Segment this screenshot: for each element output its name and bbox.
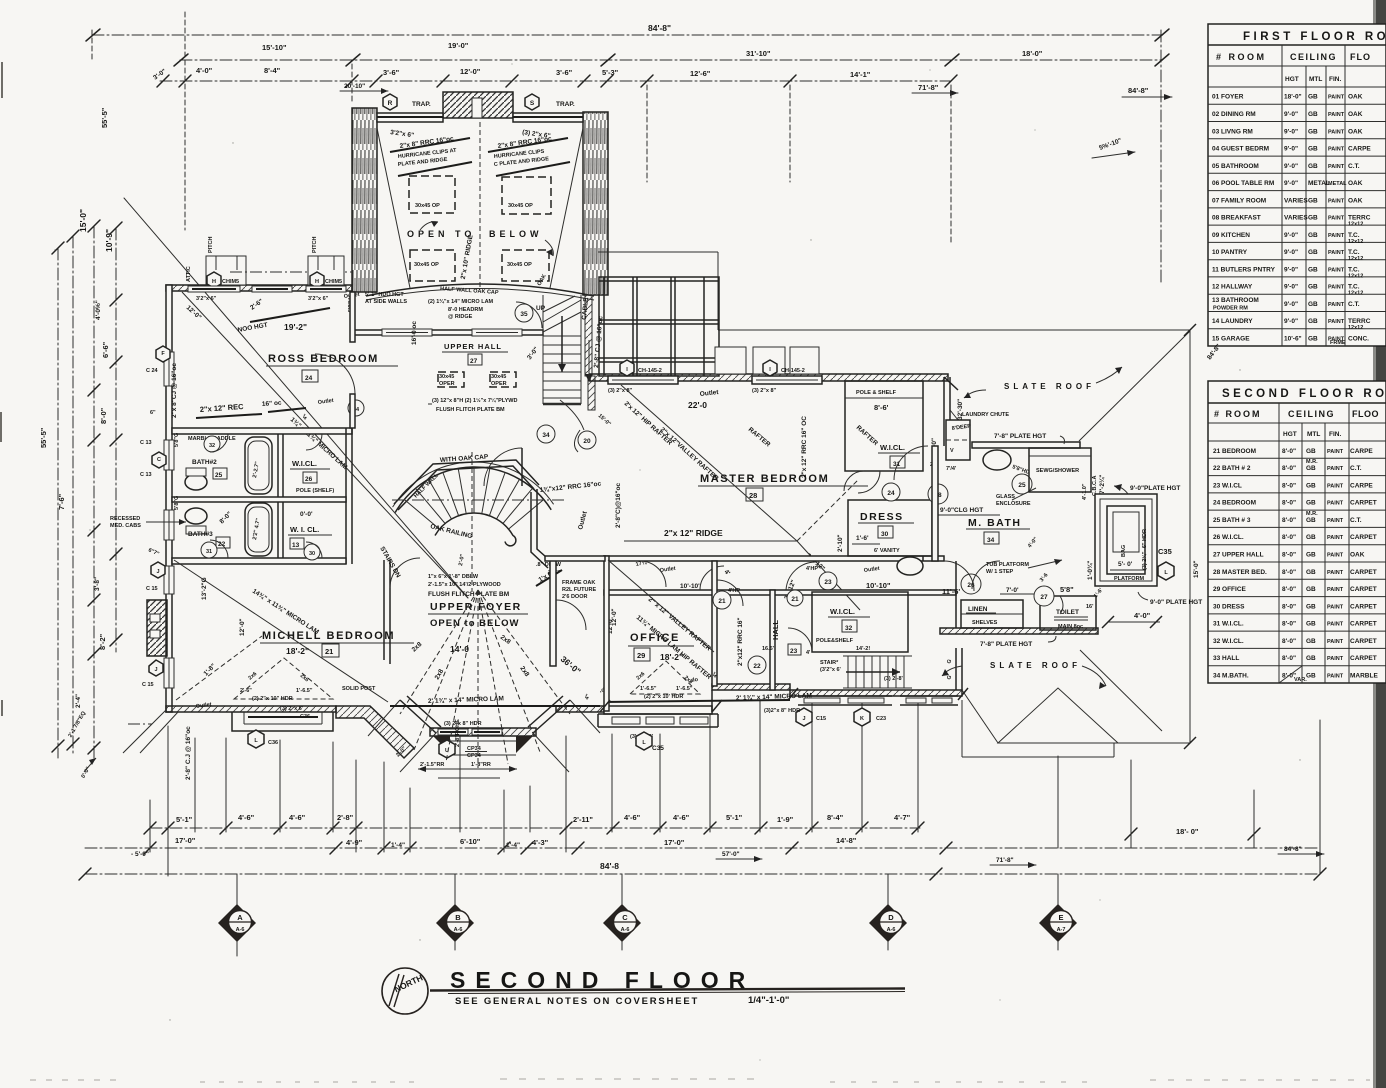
svg-text:7'-6": 7'-6" bbox=[57, 493, 66, 510]
svg-text:23: 23 bbox=[790, 648, 798, 655]
hatched wall between stair and grid bbox=[585, 295, 592, 376]
svg-text:4'-0": 4'-0" bbox=[196, 66, 213, 75]
svg-text:DRESS: DRESS bbox=[860, 511, 904, 523]
angled wall to foyer bay bbox=[336, 706, 414, 758]
svg-text:57'-0": 57'-0" bbox=[722, 851, 740, 858]
svg-text:GB: GB bbox=[1306, 465, 1316, 472]
svg-text:C.T.: C.T. bbox=[1350, 465, 1362, 472]
svg-text:V: V bbox=[950, 448, 954, 454]
svg-text:SECOND FLOOR ROO: SECOND FLOOR ROO bbox=[1222, 388, 1386, 400]
svg-text:4'-6": 4'-6" bbox=[289, 813, 306, 822]
svg-text:0'-0': 0'-0' bbox=[300, 511, 313, 518]
svg-text:8'-0": 8'-0" bbox=[1282, 638, 1296, 645]
bottom wall left wing bbox=[166, 706, 336, 712]
svg-text:12'-6": 12'-6" bbox=[690, 69, 711, 78]
svg-text:(3) 2"x 8": (3) 2"x 8" bbox=[752, 388, 777, 394]
tower right stone wall bbox=[583, 112, 608, 295]
svg-text:METAL: METAL bbox=[1308, 180, 1330, 187]
svg-text:10'-9": 10'-9" bbox=[104, 229, 114, 252]
svg-text:19'-0": 19'-0" bbox=[448, 41, 469, 50]
svg-text:8'-2": 8'-2" bbox=[98, 633, 107, 650]
top dim line row2 bbox=[180, 59, 1161, 61]
wall between bay and office bbox=[556, 706, 604, 712]
svg-text:06 POOL TABLE RM: 06 POOL TABLE RM bbox=[1212, 180, 1274, 187]
svg-text:(2) 2"x 10' HDR: (2) 2"x 10' HDR bbox=[644, 694, 683, 700]
svg-text:PAINT: PAINT bbox=[1327, 604, 1344, 610]
svg-text:FIN.: FIN. bbox=[1329, 431, 1341, 438]
svg-text:OAK: OAK bbox=[1348, 180, 1363, 187]
svg-text:4'HP: 4'HP bbox=[728, 588, 740, 594]
svg-text:PAINT: PAINT bbox=[1328, 285, 1345, 291]
stair flight right of tower bbox=[543, 295, 581, 404]
svg-text:PAINT: PAINT bbox=[1327, 639, 1344, 645]
svg-text:5'-3": 5'-3" bbox=[602, 68, 619, 77]
svg-text:TUB PLATFORM: TUB PLATFORM bbox=[986, 562, 1029, 568]
svg-text:CP34: CP34 bbox=[467, 753, 482, 759]
right wall of stairwell bbox=[531, 492, 548, 568]
svg-text:B: B bbox=[455, 913, 461, 922]
svg-text:GB: GB bbox=[1306, 500, 1316, 507]
WICL 31 room bbox=[845, 381, 923, 471]
svg-text:H: H bbox=[315, 279, 319, 285]
door circles along wall bbox=[204, 436, 220, 452]
svg-text:10'-6": 10'-6" bbox=[1284, 336, 1302, 343]
svg-text:GB: GB bbox=[1308, 128, 1318, 135]
svg-text:21 BEDROOM: 21 BEDROOM bbox=[1213, 448, 1256, 455]
svg-text:9'-0"PLATE HGT: 9'-0"PLATE HGT bbox=[1130, 485, 1180, 492]
svg-text:4'-6": 4'-6" bbox=[624, 813, 641, 822]
svg-text:POWDER RM: POWDER RM bbox=[1213, 306, 1248, 312]
svg-text:SEE GENERAL NOTES ON COVERSHEE: SEE GENERAL NOTES ON COVERSHEET bbox=[455, 996, 699, 1007]
svg-text:55'-5": 55'-5" bbox=[39, 427, 48, 448]
svg-text:8'-0": 8'-0" bbox=[1282, 517, 1296, 524]
svg-text:PAINT: PAINT bbox=[1328, 216, 1345, 222]
svg-text:OAK: OAK bbox=[1348, 128, 1363, 135]
svg-text:6": 6" bbox=[150, 410, 156, 416]
svg-text:(2) 1¾"x 14" MICRO LAM: (2) 1¾"x 14" MICRO LAM bbox=[428, 298, 494, 305]
svg-text:4'-6": 4'-6" bbox=[673, 813, 690, 822]
svg-text:5'- 0': 5'- 0' bbox=[1118, 561, 1133, 568]
svg-text:8'-0": 8'-0" bbox=[1282, 448, 1296, 455]
svg-text:9'-0": 9'-0" bbox=[1284, 128, 1298, 135]
svg-text:UP: UP bbox=[536, 305, 546, 312]
svg-text:CHIM5: CHIM5 bbox=[222, 279, 239, 285]
svg-text:FLO: FLO bbox=[1350, 52, 1371, 62]
svg-text:10'-10": 10'-10" bbox=[866, 581, 891, 590]
svg-text:C 15: C 15 bbox=[146, 586, 158, 592]
scanner dark edge band right bbox=[1376, 0, 1386, 1088]
svg-text:14'-8": 14'-8" bbox=[836, 836, 857, 845]
svg-text:MARBLE: MARBLE bbox=[1350, 673, 1378, 680]
svg-text:TERRC: TERRC bbox=[1348, 318, 1371, 325]
right top corner wall pieces above mbr bbox=[944, 377, 958, 390]
svg-text:9'-0": 9'-0" bbox=[1284, 318, 1298, 325]
svg-text:GB: GB bbox=[1308, 232, 1318, 239]
svg-text:23: 23 bbox=[824, 579, 832, 586]
svg-text:MTL: MTL bbox=[1309, 76, 1322, 83]
svg-text:4'-1.0": 4'-1.0" bbox=[1082, 483, 1088, 500]
tower top beam bbox=[377, 113, 443, 122]
svg-text:2'-4": 2'-4" bbox=[75, 694, 82, 708]
scanner noise bottom bbox=[30, 1079, 1370, 1082]
svg-text:M.R.: M.R. bbox=[1306, 459, 1318, 465]
svg-text:PAINT: PAINT bbox=[1327, 570, 1344, 576]
tick slashes row2 bbox=[144, 842, 156, 854]
svg-text:GB: GB bbox=[1306, 552, 1316, 559]
svg-text:2'-11": 2'-11" bbox=[573, 815, 593, 824]
svg-text:1'-4": 1'-4" bbox=[391, 842, 405, 849]
svg-text:1'-6.5": 1'-6.5" bbox=[676, 686, 693, 692]
svg-text:8'-0": 8'-0" bbox=[99, 407, 108, 424]
svg-text:J: J bbox=[154, 667, 157, 673]
svg-text:S: S bbox=[530, 100, 535, 107]
arrows near open-to / below bbox=[574, 430, 580, 452]
svg-text:BAG: BAG bbox=[1121, 545, 1127, 557]
bath3 fixtures bbox=[245, 503, 272, 556]
svg-text:GB: GB bbox=[1306, 638, 1316, 645]
left wall window breaks bbox=[164, 352, 174, 386]
small tick slashes inside plan walls bbox=[600, 700, 610, 712]
corner diagonal flare bottom-left bbox=[123, 710, 166, 753]
svg-text:16'-0 oc: 16'-0 oc bbox=[411, 321, 418, 345]
big door arc hall to ross bbox=[484, 448, 522, 486]
svg-text:PAINT: PAINT bbox=[1327, 674, 1344, 680]
svg-text:13 BATHROOM: 13 BATHROOM bbox=[1212, 297, 1259, 304]
svg-text:12 HALLWAY: 12 HALLWAY bbox=[1212, 284, 1253, 291]
svg-text:CONC.: CONC. bbox=[1348, 336, 1369, 343]
svg-text:VAR.: VAR. bbox=[1294, 677, 1307, 683]
I window tags on master wall bbox=[620, 360, 634, 376]
NE hip bbox=[1079, 331, 1190, 441]
svg-text:27: 27 bbox=[470, 358, 478, 365]
svg-text:GB: GB bbox=[1306, 569, 1316, 576]
svg-text:8'-0": 8'-0" bbox=[1282, 621, 1296, 628]
svg-text:C36: C36 bbox=[300, 714, 310, 720]
svg-text:3'-6": 3'-6" bbox=[383, 68, 400, 77]
left wall bbox=[166, 285, 172, 712]
svg-text:PAINT: PAINT bbox=[1328, 233, 1345, 239]
SE hips & gable bbox=[1080, 650, 1162, 731]
svg-text:R2L FUTURE: R2L FUTURE bbox=[562, 587, 596, 593]
svg-text:GB: GB bbox=[1308, 249, 1318, 256]
svg-text:84'-8": 84'-8" bbox=[1128, 86, 1149, 95]
svg-text:4': 4' bbox=[806, 650, 811, 656]
svg-text:84'-8": 84'-8" bbox=[648, 23, 671, 33]
svg-text:OAK: OAK bbox=[1348, 111, 1363, 118]
svg-text:GB: GB bbox=[1306, 448, 1316, 455]
svg-text:CARPET: CARPET bbox=[1350, 603, 1377, 610]
svg-text:30x45: 30x45 bbox=[439, 374, 454, 380]
tick slashes row1 bbox=[144, 822, 156, 834]
svg-text:3'-8": 3'-8" bbox=[94, 577, 101, 591]
svg-text:8'-0": 8'-0" bbox=[1282, 534, 1296, 541]
svg-text:FIN.: FIN. bbox=[1329, 76, 1341, 83]
inner taper diagonals bbox=[377, 128, 410, 288]
stair treads bbox=[404, 467, 543, 529]
svg-text:15'-0": 15'-0" bbox=[1193, 560, 1200, 578]
svg-text:C23: C23 bbox=[876, 716, 886, 722]
svg-text:9'-0": 9'-0" bbox=[1284, 249, 1298, 256]
left wall J tags bbox=[151, 562, 165, 578]
toilet room bbox=[1040, 596, 1096, 630]
svg-text:PLATFORM: PLATFORM bbox=[1114, 576, 1145, 582]
svg-text:6'-10": 6'-10" bbox=[460, 837, 481, 846]
svg-text:9'-0": 9'-0" bbox=[1284, 180, 1298, 187]
svg-text:PAINT: PAINT bbox=[1327, 501, 1344, 507]
svg-text:GB: GB bbox=[1308, 163, 1318, 170]
svg-text:C35: C35 bbox=[1158, 547, 1172, 556]
top dim line row3 bbox=[160, 80, 951, 82]
svg-text:6'-6": 6'-6" bbox=[101, 341, 110, 358]
svg-text:13: 13 bbox=[292, 542, 300, 549]
svg-text:A-6: A-6 bbox=[236, 927, 245, 933]
svg-text:RECESSED: RECESSED bbox=[110, 516, 140, 522]
svg-text:BATH#3: BATH#3 bbox=[188, 531, 213, 538]
svg-text:9'-0": 9'-0" bbox=[1284, 163, 1298, 170]
svg-text:CARPET: CARPET bbox=[1350, 586, 1377, 593]
svg-text:GB: GB bbox=[1306, 603, 1316, 610]
svg-text:(3) 12"x 8"H (2) 1½"x 7¼"PLYW: (3) 12"x 8"H (2) 1½"x 7¼"PLYWD bbox=[432, 397, 517, 404]
svg-text:CARPET: CARPET bbox=[1350, 500, 1377, 507]
svg-text:(3) 2"x 8" HDR: (3) 2"x 8" HDR bbox=[444, 721, 482, 727]
svg-text:1/4"-1'-0": 1/4"-1'-0" bbox=[748, 995, 789, 1006]
svg-text:SHELVES: SHELVES bbox=[972, 620, 998, 626]
svg-text:C 15: C 15 bbox=[142, 682, 154, 688]
svg-text:TERRC: TERRC bbox=[1348, 215, 1371, 222]
svg-text:9'-0": 9'-0" bbox=[1284, 301, 1298, 308]
svg-text:6' VANITY: 6' VANITY bbox=[874, 548, 900, 554]
svg-text:PAINT: PAINT bbox=[1328, 267, 1345, 273]
svg-text:09 KITCHEN: 09 KITCHEN bbox=[1212, 232, 1250, 239]
svg-text:PAINT: PAINT bbox=[1328, 147, 1345, 153]
svg-text:33 HALL: 33 HALL bbox=[1213, 655, 1239, 662]
svg-text:71'-8": 71'-8" bbox=[918, 83, 939, 92]
office window bay bbox=[604, 706, 712, 714]
svg-text:VARIES: VARIES bbox=[1284, 197, 1308, 204]
bay sill band with windows bbox=[430, 728, 536, 736]
svg-text:GB: GB bbox=[1308, 266, 1318, 273]
svg-text:71'-8": 71'-8" bbox=[996, 857, 1014, 864]
svg-text:2'-1.5"x 10" 14'/2 PLYWOOD: 2'-1.5"x 10" 14'/2 PLYWOOD bbox=[428, 582, 501, 588]
back stair bbox=[843, 656, 912, 688]
svg-text:C 24: C 24 bbox=[146, 368, 159, 374]
half wall oak cap curved bbox=[366, 284, 594, 296]
svg-text:7'-8" PLATE HGT: 7'-8" PLATE HGT bbox=[994, 433, 1046, 440]
svg-text:GB: GB bbox=[1306, 586, 1316, 593]
svg-text:1'-0¾": 1'-0¾" bbox=[1086, 561, 1094, 580]
svg-text:(3)2"x 8" HDR: (3)2"x 8" HDR bbox=[764, 708, 800, 714]
svg-text:2'-6": 2'-6" bbox=[240, 688, 252, 694]
svg-text:30x45 OP: 30x45 OP bbox=[508, 203, 533, 209]
svg-text:30: 30 bbox=[309, 551, 315, 557]
svg-text:PAINT: PAINT bbox=[1327, 622, 1344, 628]
svg-text:5'8"G: 5'8"G bbox=[174, 433, 180, 447]
svg-text:12'-0": 12'-0" bbox=[239, 618, 246, 636]
svg-text:A-7: A-7 bbox=[1057, 927, 1066, 933]
svg-text:30x45 OP: 30x45 OP bbox=[415, 203, 440, 209]
svg-text:(3) 2"x 8": (3) 2"x 8" bbox=[608, 388, 633, 394]
svg-text:CHIM5: CHIM5 bbox=[325, 279, 342, 285]
svg-text:9'-0": 9'-0" bbox=[1284, 232, 1298, 239]
svg-text:13'-2"G: 13'-2"G bbox=[201, 577, 208, 600]
svg-text:PITCH: PITCH bbox=[208, 236, 214, 253]
svg-text:GB: GB bbox=[1306, 482, 1316, 489]
door arcs bbox=[210, 434, 228, 452]
svg-text:3'2"x 6": 3'2"x 6" bbox=[196, 296, 217, 302]
svg-text:BELOW: BELOW bbox=[489, 229, 543, 239]
svg-text:PAINT: PAINT bbox=[1328, 95, 1345, 101]
foyer left vertical wall bbox=[550, 560, 556, 666]
svg-text:T.C.: T.C. bbox=[1348, 232, 1360, 239]
svg-text:7'-0': 7'-0' bbox=[1006, 587, 1019, 594]
svg-text:C35: C35 bbox=[652, 745, 664, 752]
hexagon L under bay bbox=[248, 730, 264, 748]
svg-text:GB: GB bbox=[1306, 673, 1316, 680]
svg-text:30 DRESS: 30 DRESS bbox=[1213, 603, 1245, 610]
svg-text:K: K bbox=[860, 716, 864, 722]
svg-text:SOLID POST: SOLID POST bbox=[342, 686, 376, 692]
inner railing arc with curl bbox=[435, 513, 516, 546]
svg-text:18'-0": 18'-0" bbox=[1284, 94, 1302, 101]
svg-text:15 GARAGE: 15 GARAGE bbox=[1212, 336, 1250, 343]
svg-text:3'2"x 6": 3'2"x 6" bbox=[308, 296, 329, 302]
skylight dashed squares bbox=[409, 176, 455, 213]
svg-text:11'-6': 11'-6' bbox=[942, 587, 960, 596]
svg-text:TRAP.: TRAP. bbox=[412, 101, 431, 108]
sewing/shower room bbox=[1029, 448, 1091, 492]
svg-text:CARPET: CARPET bbox=[1350, 569, 1377, 576]
svg-text:2'-10": 2'-10" bbox=[837, 534, 844, 552]
svg-text:14'-2!: 14'-2! bbox=[856, 646, 870, 652]
svg-text:TOILET: TOILET bbox=[1056, 609, 1079, 616]
svg-text:22: 22 bbox=[753, 663, 761, 670]
svg-text:GB: GB bbox=[1308, 284, 1318, 291]
svg-text:W.I.CL.: W.I.CL. bbox=[292, 459, 317, 468]
svg-text:OAK: OAK bbox=[1348, 94, 1363, 101]
svg-text:PAINT: PAINT bbox=[1327, 466, 1344, 472]
svg-text:FRME: FRME bbox=[1330, 340, 1346, 346]
svg-text:GB: GB bbox=[1306, 534, 1316, 541]
svg-text:21: 21 bbox=[718, 598, 726, 605]
curved stair outer arc bbox=[395, 467, 551, 513]
svg-text:POLE & SHELF: POLE & SHELF bbox=[856, 390, 897, 396]
bottom-left bay window bbox=[232, 712, 333, 731]
top wall left wing bbox=[166, 285, 352, 291]
svg-text:GB: GB bbox=[1308, 146, 1318, 153]
svg-text:CARPE: CARPE bbox=[1350, 482, 1373, 489]
svg-text:J: J bbox=[802, 716, 805, 722]
svg-text:12'-0": 12'-0" bbox=[460, 67, 481, 76]
hall/stair bottom wall with windows bbox=[790, 690, 962, 696]
svg-text:(3) 2'-8': (3) 2'-8' bbox=[884, 676, 904, 682]
svg-text:4'-3": 4'-3" bbox=[532, 838, 549, 847]
svg-text:18'- 0": 18'- 0" bbox=[1176, 827, 1199, 836]
svg-text:(3) 2¼"- 6" HDR: (3) 2¼"- 6" HDR bbox=[1141, 529, 1148, 570]
svg-text:CH-145-2: CH-145-2 bbox=[638, 368, 662, 374]
svg-text:5'8"G: 5'8"G bbox=[174, 496, 180, 510]
svg-text:GB: GB bbox=[1308, 215, 1318, 222]
svg-text:24 BEDROOM: 24 BEDROOM bbox=[1213, 500, 1256, 507]
svg-text:GLASS: GLASS bbox=[996, 494, 1015, 500]
svg-text:PAINT: PAINT bbox=[1328, 250, 1345, 256]
svg-text:8'-0": 8'-0" bbox=[1282, 500, 1296, 507]
svg-text:9'-0": 9'-0" bbox=[1284, 266, 1298, 273]
svg-text:SEWG/SHOWER: SEWG/SHOWER bbox=[1036, 468, 1079, 474]
svg-text:# ROOM: # ROOM bbox=[1216, 52, 1267, 62]
svg-text:8'-0": 8'-0" bbox=[1282, 586, 1296, 593]
window sills top wall bbox=[188, 286, 240, 292]
svg-text:CEILING: CEILING bbox=[1288, 409, 1335, 419]
svg-text:PAINT: PAINT bbox=[1328, 112, 1345, 118]
svg-text:GB: GB bbox=[1308, 336, 1318, 343]
chimney hatched block top bbox=[443, 92, 513, 118]
svg-text:1"x 6"x 1'-8" DBLW: 1"x 6"x 1'-8" DBLW bbox=[428, 574, 479, 580]
svg-text:GB: GB bbox=[1308, 301, 1318, 308]
svg-text:GB: GB bbox=[1308, 111, 1318, 118]
svg-text:POLE (SHELF): POLE (SHELF) bbox=[296, 488, 334, 494]
svg-text:31'-10": 31'-10" bbox=[746, 49, 771, 58]
svg-text:MTL: MTL bbox=[1307, 431, 1320, 438]
svg-text:GB: GB bbox=[1308, 197, 1318, 204]
svg-text:GB: GB bbox=[1308, 94, 1318, 101]
svg-text:2'6 DOOR: 2'6 DOOR bbox=[562, 594, 587, 600]
svg-text:CEILING: CEILING bbox=[1290, 52, 1337, 62]
svg-text:9'-0" PLATE HGT: 9'-0" PLATE HGT bbox=[1150, 599, 1202, 606]
svg-text:A-6: A-6 bbox=[621, 927, 630, 933]
svg-text:OPEN TO: OPEN TO bbox=[407, 229, 475, 239]
svg-text:5'-1" HDO HGT: 5'-1" HDO HGT bbox=[365, 292, 404, 298]
svg-text:FIRST FLOOR ROO: FIRST FLOOR ROO bbox=[1243, 31, 1386, 43]
svg-text:C: C bbox=[157, 457, 161, 463]
svg-text:2'-8"C)@16"oc: 2'-8"C)@16"oc bbox=[615, 482, 622, 528]
svg-text:84'-8: 84'-8 bbox=[600, 861, 619, 871]
svg-text:PITCH: PITCH bbox=[312, 236, 318, 253]
bottom vertical extension lines bbox=[167, 726, 169, 876]
svg-text:03 LIVNG RM: 03 LIVNG RM bbox=[1212, 128, 1253, 135]
svg-text:29: 29 bbox=[637, 651, 645, 660]
svg-text:CARPET: CARPET bbox=[1350, 638, 1377, 645]
svg-text:2"x12" RRC 16": 2"x12" RRC 16" bbox=[737, 617, 744, 666]
svg-text:24: 24 bbox=[887, 490, 895, 497]
column grid bubbles bbox=[237, 874, 1058, 956]
roof hip diagonal top-left entering plan bbox=[124, 198, 468, 598]
svg-text:15'-10": 15'-10" bbox=[262, 43, 287, 52]
svg-text:GB: GB bbox=[1306, 621, 1316, 628]
svg-text:CARPET: CARPET bbox=[1350, 621, 1377, 628]
svg-text:C.B.C.A: C.B.C.A bbox=[1092, 476, 1098, 497]
svg-text:M.R.: M.R. bbox=[1306, 511, 1318, 517]
svg-text:9'-0": 9'-0" bbox=[1284, 284, 1298, 291]
svg-text:12'-0": 12'-0" bbox=[611, 608, 618, 626]
solid corner posts bbox=[433, 736, 450, 753]
svg-text:PAINT: PAINT bbox=[1327, 518, 1344, 524]
top wall chimneys bbox=[206, 256, 246, 285]
svg-text:ENCLOSURE: ENCLOSURE bbox=[996, 501, 1031, 507]
svg-text:HGT: HGT bbox=[1283, 431, 1297, 438]
svg-text:9'-0": 9'-0" bbox=[1284, 111, 1298, 118]
hexagon S bbox=[525, 94, 539, 110]
svg-text:T.C.: T.C. bbox=[1348, 266, 1360, 273]
svg-text:12x12: 12x12 bbox=[1348, 273, 1363, 279]
wall below tower-left down to bath block bbox=[350, 292, 355, 342]
svg-text:17'-0": 17'-0" bbox=[175, 836, 196, 845]
svg-text:2"x 12" RRC 16" OC: 2"x 12" RRC 16" OC bbox=[801, 416, 808, 478]
svg-text:30x45 OP: 30x45 OP bbox=[507, 262, 532, 268]
svg-text:2"x 12" RIDGE: 2"x 12" RIDGE bbox=[664, 528, 723, 538]
svg-text:2'-8" C.J @ 16"oc: 2'-8" C.J @ 16"oc bbox=[185, 726, 192, 780]
svg-text:26: 26 bbox=[305, 476, 313, 483]
svg-text:PAINT: PAINT bbox=[1328, 302, 1345, 308]
